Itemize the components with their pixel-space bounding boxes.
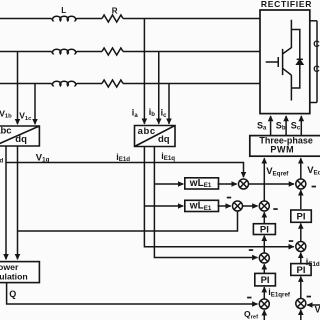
wire V1d feed to node: [18, 211, 238, 231]
wire V1q output: [5, 146, 7, 259]
svg-text:L: L: [61, 6, 66, 15]
wire PIq1 to X4: [263, 212, 265, 224]
wire DC bus: [316, 21, 318, 103]
diode D1: [297, 59, 303, 64]
wire X1 to X2: [249, 183, 295, 185]
wire iE1d output: [144, 147, 293, 247]
wire X7 to PId2: [300, 277, 302, 299]
svg-text:dq: dq: [15, 134, 27, 145]
wire DC plus: [310, 20, 317, 22]
resistor R (phase b): [102, 48, 123, 55]
minus sign at X5: [249, 249, 253, 251]
gain block wL1: [185, 178, 219, 189]
svg-text:iE1q: iE1q: [161, 151, 175, 162]
svg-text:Q: Q: [9, 289, 16, 299]
minus sign at X7: [307, 296, 311, 298]
wire IGBT emitter: [290, 75, 292, 100]
PI controller d outer: [291, 264, 311, 276]
summing junction X2: [296, 179, 306, 189]
svg-text:PI: PI: [297, 265, 306, 276]
svg-text:abc: abc: [138, 126, 156, 137]
wire iE1d to wL2: [144, 205, 183, 207]
wire X5 to PIq1: [263, 236, 265, 253]
wire X3 to X4: [243, 205, 258, 207]
svg-text:V: V: [315, 304, 320, 314]
svg-text:dq: dq: [158, 134, 170, 145]
svg-text:VEdref: VEdref: [307, 165, 320, 176]
svg-text:Qref: Qref: [244, 309, 258, 320]
svg-text:V1b: V1b: [0, 108, 12, 119]
svg-text:VEqref: VEqref: [266, 166, 289, 177]
wire Sb gate: [285, 116, 287, 136]
wire Sc gate: [300, 116, 302, 136]
summing junction X1: [239, 179, 249, 189]
minus sign at X2: [312, 186, 316, 188]
resistor R (phase a): [102, 15, 123, 22]
summing junction X4: [259, 201, 269, 211]
summing junction X6: [259, 299, 269, 309]
wire Q output: [7, 283, 258, 304]
svg-text:PI: PI: [261, 275, 270, 286]
wire phase b: [0, 51, 260, 53]
svg-text:V1c: V1c: [19, 110, 32, 121]
transistor IGBT: [266, 20, 292, 75]
wire X6 to PIq2: [263, 287, 265, 299]
wire ib tap: [158, 52, 160, 124]
wire ia tap: [143, 19, 145, 124]
svg-text:C: C: [313, 39, 320, 49]
wire diode branch: [291, 30, 299, 89]
svg-text:PI: PI: [260, 225, 269, 236]
summing junction X5: [259, 253, 269, 263]
minus sign at X8: [289, 240, 293, 242]
svg-text:R: R: [112, 6, 118, 15]
wire iE1q to wL1: [154, 183, 183, 185]
summing junction X7: [296, 299, 306, 309]
abc-dq voltage transform block: [0, 126, 39, 146]
wire PId1 to X2: [300, 190, 302, 209]
wire Sa gate: [270, 116, 272, 136]
wire DC minus: [310, 102, 317, 104]
svg-text:iE1qref: iE1qref: [268, 287, 291, 298]
svg-text:PI: PI: [297, 212, 306, 223]
wire phase c: [0, 83, 260, 85]
wire PIq2 to X5: [263, 264, 265, 273]
svg-text:wLE1: wLE1: [189, 178, 212, 189]
gain block wL2: [185, 200, 219, 211]
svg-text:Sc: Sc: [291, 120, 301, 131]
power calculation block: [0, 262, 39, 283]
wire V1q feed to node: [6, 163, 244, 178]
PI controller q inner: [253, 224, 275, 235]
svg-text:abc: abc: [0, 125, 12, 136]
wire iE1q output: [154, 147, 257, 258]
svg-text:iE1d: iE1d: [116, 152, 130, 163]
PI controller d inner: [291, 210, 312, 222]
wire X8 to PId1: [300, 224, 302, 242]
resistor R (phase c): [102, 80, 123, 87]
summing junction X8: [296, 242, 306, 252]
inductor L (phase b): [52, 49, 78, 54]
wire phase a: [0, 18, 260, 20]
svg-text:iE1dref: iE1dref: [306, 257, 320, 268]
inductor L (phase a): [52, 16, 78, 21]
minus sign at X4: [273, 208, 277, 210]
svg-text:wLE1: wLE1: [189, 201, 212, 212]
svg-text:d: d: [0, 157, 4, 164]
svg-text:calculation: calculation: [0, 271, 28, 281]
minus sign at X3: [227, 197, 231, 199]
abc-dq current transform block: [135, 126, 176, 147]
wire X7 right input: [307, 304, 320, 306]
svg-text:ia: ia: [132, 108, 139, 119]
PI controller q outer: [255, 273, 276, 286]
wire ic tap: [168, 84, 170, 124]
wire V1d output: [17, 146, 19, 259]
svg-text:PWM: PWM: [270, 144, 294, 154]
svg-text:Sa: Sa: [257, 120, 267, 131]
summing junction X3: [233, 201, 243, 211]
wire PId2 to X8: [300, 253, 302, 264]
svg-text:V1q: V1q: [36, 152, 50, 163]
wire X7 bottom input: [300, 310, 302, 320]
three-phase PWM block: [250, 136, 320, 157]
wire VEdref to PWM: [300, 158, 302, 179]
wire V1b tap: [17, 52, 19, 125]
svg-text:RECTIFIER: RECTIFIER: [261, 0, 312, 9]
wire wL1 to node X1: [218, 183, 237, 185]
wire Qref input: [263, 310, 265, 320]
rectifier block: [260, 10, 310, 114]
wire wL2 to node X3: [218, 205, 231, 207]
inductor L (phase c): [52, 81, 78, 86]
minus sign at X6: [247, 297, 251, 299]
svg-text:C: C: [313, 64, 320, 74]
wire VEqref to PWM: [263, 158, 265, 201]
wire V1c tap: [34, 84, 36, 125]
svg-text:ib: ib: [149, 107, 156, 118]
svg-text:Sb: Sb: [276, 120, 286, 131]
svg-text:ic: ic: [161, 108, 168, 119]
